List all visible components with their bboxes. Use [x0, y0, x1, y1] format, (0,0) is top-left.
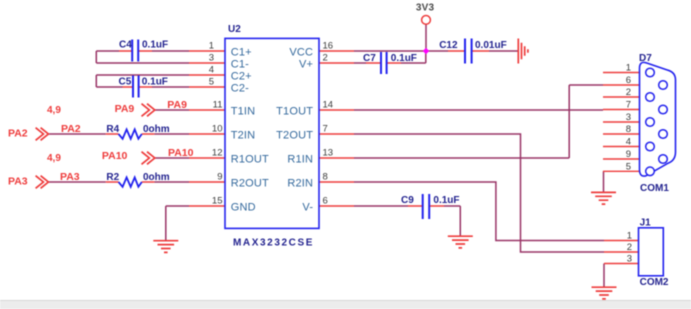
svg-text:8: 8 — [323, 172, 328, 183]
svg-text:R1IN: R1IN — [287, 154, 313, 166]
svg-text:COM1: COM1 — [640, 183, 669, 194]
svg-text:8: 8 — [626, 124, 631, 135]
svg-text:R4: R4 — [106, 124, 119, 135]
svg-text:0.1uF: 0.1uF — [142, 77, 168, 88]
svg-text:V-: V- — [302, 202, 313, 214]
svg-text:V+: V+ — [299, 59, 313, 71]
svg-text:4: 4 — [209, 65, 214, 76]
svg-text:R2OUT: R2OUT — [231, 178, 269, 190]
svg-text:0.1uF: 0.1uF — [142, 40, 168, 51]
svg-text:T1OUT: T1OUT — [276, 106, 313, 118]
svg-text:C1+: C1+ — [231, 47, 252, 59]
svg-text:T2OUT: T2OUT — [276, 130, 313, 142]
svg-text:3: 3 — [627, 254, 632, 265]
svg-text:1: 1 — [209, 41, 214, 52]
svg-text:PA9: PA9 — [115, 103, 135, 115]
svg-text:11: 11 — [213, 100, 223, 111]
svg-text:T2IN: T2IN — [231, 130, 256, 142]
svg-text:14: 14 — [323, 100, 334, 111]
svg-text:C7: C7 — [363, 53, 376, 64]
svg-text:0ohm: 0ohm — [143, 172, 170, 183]
svg-text:2: 2 — [323, 53, 328, 64]
svg-text:PA2: PA2 — [8, 127, 28, 139]
svg-text:C9: C9 — [401, 195, 414, 206]
svg-text:C2-: C2- — [231, 83, 249, 95]
svg-text:C1-: C1- — [231, 59, 249, 71]
svg-text:PA3: PA3 — [8, 175, 28, 187]
svg-text:J1: J1 — [640, 218, 652, 229]
svg-text:R2: R2 — [106, 172, 119, 183]
svg-text:C2+: C2+ — [231, 71, 252, 83]
svg-text:12: 12 — [212, 148, 223, 159]
svg-text:13: 13 — [323, 148, 334, 159]
svg-text:PA10: PA10 — [102, 150, 128, 162]
svg-text:0.1uF: 0.1uF — [433, 195, 459, 206]
svg-text:C4: C4 — [119, 40, 132, 51]
svg-text:3: 3 — [626, 112, 631, 123]
svg-text:C12: C12 — [439, 40, 458, 51]
svg-text:7: 7 — [323, 124, 328, 135]
svg-text:6: 6 — [626, 75, 631, 86]
svg-text:COM2: COM2 — [640, 277, 669, 288]
svg-text:1: 1 — [627, 231, 632, 242]
svg-text:0.01uF: 0.01uF — [475, 40, 507, 51]
svg-text:GND: GND — [231, 202, 256, 214]
svg-text:6: 6 — [323, 196, 328, 207]
svg-text:2: 2 — [627, 242, 632, 253]
svg-text:1: 1 — [626, 63, 631, 74]
svg-text:4: 4 — [626, 137, 631, 148]
svg-text:3: 3 — [209, 53, 214, 64]
svg-text:PA2: PA2 — [61, 123, 81, 135]
svg-text:5: 5 — [626, 161, 631, 172]
svg-text:9: 9 — [217, 172, 222, 183]
svg-text:3V3: 3V3 — [416, 3, 435, 14]
svg-text:9: 9 — [626, 149, 631, 160]
svg-text:VCC: VCC — [289, 47, 313, 59]
svg-text:2: 2 — [626, 87, 631, 98]
svg-text:D7: D7 — [639, 53, 652, 64]
svg-text:0.1uF: 0.1uF — [391, 53, 417, 64]
svg-text:5: 5 — [209, 77, 214, 88]
svg-text:R2IN: R2IN — [287, 178, 313, 190]
svg-text:4,9: 4,9 — [47, 105, 61, 116]
svg-text:T1IN: T1IN — [231, 106, 256, 118]
svg-text:0ohm: 0ohm — [143, 124, 170, 135]
svg-text:10: 10 — [212, 124, 223, 135]
svg-text:PA3: PA3 — [60, 171, 80, 183]
svg-text:16: 16 — [323, 41, 334, 52]
svg-text:U2: U2 — [228, 24, 241, 35]
svg-text:MAX3232CSE: MAX3232CSE — [233, 238, 314, 249]
svg-text:PA10: PA10 — [168, 147, 194, 159]
svg-text:4,9: 4,9 — [47, 153, 61, 164]
svg-text:R1OUT: R1OUT — [231, 154, 269, 166]
svg-text:PA9: PA9 — [167, 99, 187, 111]
svg-text:C5: C5 — [119, 77, 132, 88]
svg-text:15: 15 — [212, 196, 223, 207]
svg-text:7: 7 — [626, 100, 631, 111]
